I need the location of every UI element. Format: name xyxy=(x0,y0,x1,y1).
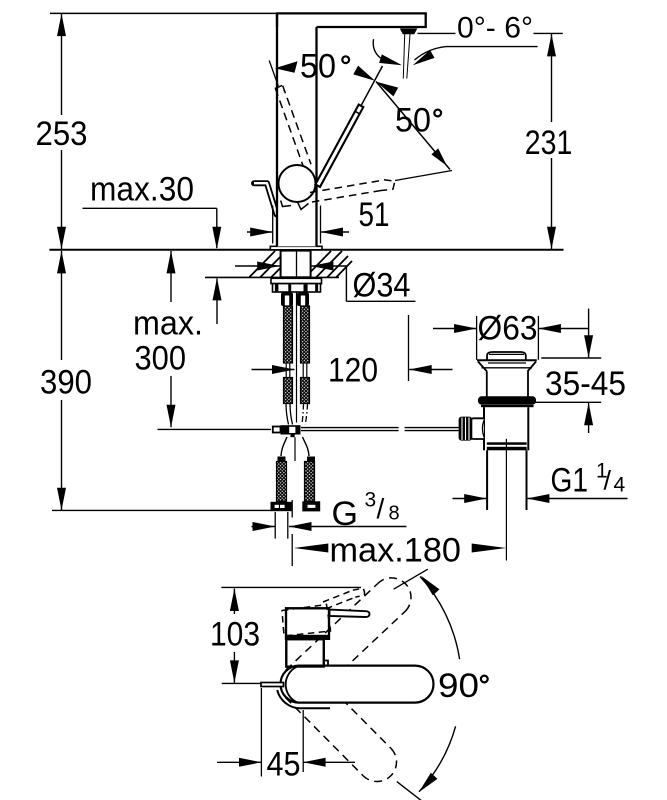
tailpipe xyxy=(486,450,488,510)
drain flange xyxy=(477,359,537,361)
body tab xyxy=(324,661,328,667)
dashed housing xyxy=(282,605,331,637)
stud cap left xyxy=(278,457,286,462)
deck hatching left xyxy=(249,251,300,278)
pivot circle xyxy=(279,165,316,202)
arrowhead 50-2 lower xyxy=(431,148,447,166)
body bottom rings xyxy=(487,442,527,445)
rubber seal xyxy=(478,396,536,404)
mounting stud right xyxy=(305,462,315,502)
side port xyxy=(471,418,485,439)
dashed pill up xyxy=(286,578,411,698)
svg-text:/: / xyxy=(604,466,612,496)
dim 253 line xyxy=(61,14,63,115)
knurled knob xyxy=(459,417,473,441)
lever axis line A extension xyxy=(269,61,278,87)
dim max300 ref line xyxy=(158,428,272,430)
svg-text:50: 50 xyxy=(395,102,431,140)
pill outer arc lower-left xyxy=(277,690,330,708)
90 arc xyxy=(420,577,460,660)
svg-text:max.30: max.30 xyxy=(90,171,194,209)
dim 231 line xyxy=(551,34,553,122)
dashed lever back-end marks xyxy=(281,201,291,207)
svg-text:390: 390 xyxy=(40,364,92,402)
housing thick bottom xyxy=(286,635,330,639)
spout pill xyxy=(281,666,434,703)
svg-text:Ø63: Ø63 xyxy=(478,310,538,348)
0-6 left arc xyxy=(373,39,383,60)
pull rod xyxy=(301,427,399,429)
lever bar top view xyxy=(330,610,370,617)
svg-text:max.180: max.180 xyxy=(330,532,462,570)
svg-text:51: 51 xyxy=(359,196,390,234)
angle dim line 50-2 xyxy=(376,82,450,170)
braided hose right seg1 xyxy=(301,306,310,363)
svg-text:90: 90 xyxy=(438,667,479,705)
countertop deck bottom line xyxy=(205,276,339,278)
arrowhead 50-2 upper (bowtie lower) xyxy=(376,82,398,97)
stud cap right xyxy=(307,457,315,462)
centerline xyxy=(296,292,298,423)
mounting stud left xyxy=(277,462,287,502)
svg-text:4: 4 xyxy=(614,474,626,497)
svg-text:45: 45 xyxy=(267,746,301,784)
dashed pill down xyxy=(286,670,397,781)
threaded shank xyxy=(281,251,311,278)
valve body xyxy=(483,407,485,450)
solid lever xyxy=(315,105,363,187)
dim G38 xyxy=(274,512,276,539)
dim 51 xyxy=(272,206,274,244)
handle hook (left) xyxy=(254,183,277,214)
stud washer left xyxy=(271,502,292,511)
stud washer right xyxy=(302,501,320,511)
dim 390 line xyxy=(61,251,63,360)
dim O34 arrows xyxy=(235,265,280,267)
svg-text:300: 300 xyxy=(135,340,187,378)
pill inner cap arc xyxy=(286,667,297,702)
svg-text:max.: max. xyxy=(133,305,203,343)
0-6 label leader xyxy=(418,32,456,34)
countertop deck top line xyxy=(49,249,563,251)
svg-text:G1: G1 xyxy=(551,462,589,500)
arrowhead 50-1 left xyxy=(275,61,298,73)
body right edge xyxy=(315,27,317,246)
svg-text:3: 3 xyxy=(365,489,377,512)
lever cap line xyxy=(355,111,359,113)
arrowhead 50-1 right (bowtie upper) xyxy=(353,66,375,81)
dim G114 xyxy=(453,498,487,500)
braided hose left seg1 xyxy=(284,306,293,363)
svg-text:8: 8 xyxy=(389,503,400,525)
svg-text:50: 50 xyxy=(300,48,336,86)
housing xyxy=(286,608,329,639)
0-6 right arc leader xyxy=(415,47,538,60)
dim 103 xyxy=(221,586,361,588)
pull rod left cap xyxy=(273,427,281,433)
housing outline restroke xyxy=(286,608,329,639)
svg-text:0°- 6°: 0°- 6° xyxy=(457,12,533,45)
lever axis line B extension xyxy=(318,66,383,185)
mounting nut xyxy=(273,284,321,292)
water stream xyxy=(403,34,404,78)
hose connector left xyxy=(281,293,293,307)
svg-text:/: / xyxy=(377,493,385,524)
deck hatching right xyxy=(305,251,352,278)
body top view xyxy=(286,639,324,666)
stud curves xyxy=(281,437,309,456)
svg-text:120: 120 xyxy=(328,352,378,390)
body outline restroke xyxy=(286,639,324,666)
flange neck xyxy=(486,372,488,397)
faucet body xyxy=(277,13,317,246)
svg-text:Ø34: Ø34 xyxy=(353,267,411,305)
dim 45 xyxy=(260,688,262,777)
dim max300 line xyxy=(170,251,172,302)
svg-text:231: 231 xyxy=(525,124,573,162)
drain centerline xyxy=(505,439,507,561)
body left edge xyxy=(276,13,278,246)
dashed lever right-down xyxy=(309,180,395,203)
svg-text:103: 103 xyxy=(210,616,260,654)
svg-text:G: G xyxy=(332,495,358,533)
svg-text:253: 253 xyxy=(36,115,88,153)
top reference line xyxy=(50,12,278,14)
spout bar xyxy=(277,13,426,27)
dim O34 leader xyxy=(345,266,347,301)
dim 390 ref line xyxy=(52,509,272,511)
nozzle xyxy=(400,28,418,34)
shank washer xyxy=(271,278,322,283)
dim 120 xyxy=(408,315,410,381)
braided hose right seg2 xyxy=(301,378,310,404)
popup cap xyxy=(487,352,526,360)
rear nub xyxy=(261,683,284,687)
braided hose left seg2 xyxy=(284,378,293,404)
tee block xyxy=(281,425,301,434)
hose connector right xyxy=(297,293,309,307)
centerline below tee xyxy=(294,437,296,461)
90 arc ext lines xyxy=(394,569,428,589)
tee nub below xyxy=(291,435,295,438)
dim O63 xyxy=(476,316,478,360)
hose cores in gap xyxy=(286,363,307,378)
svg-text:35-45: 35-45 xyxy=(545,365,626,403)
faucet base plate xyxy=(270,246,322,250)
dim max180 xyxy=(291,500,293,518)
dim max.30 leader xyxy=(83,207,217,209)
dashed lever axis extension right xyxy=(395,171,452,181)
dashed lever bar xyxy=(323,588,365,609)
dashed lever up-left xyxy=(275,85,311,167)
dim 35-45 xyxy=(541,357,601,359)
hose tails to tee xyxy=(286,404,293,425)
